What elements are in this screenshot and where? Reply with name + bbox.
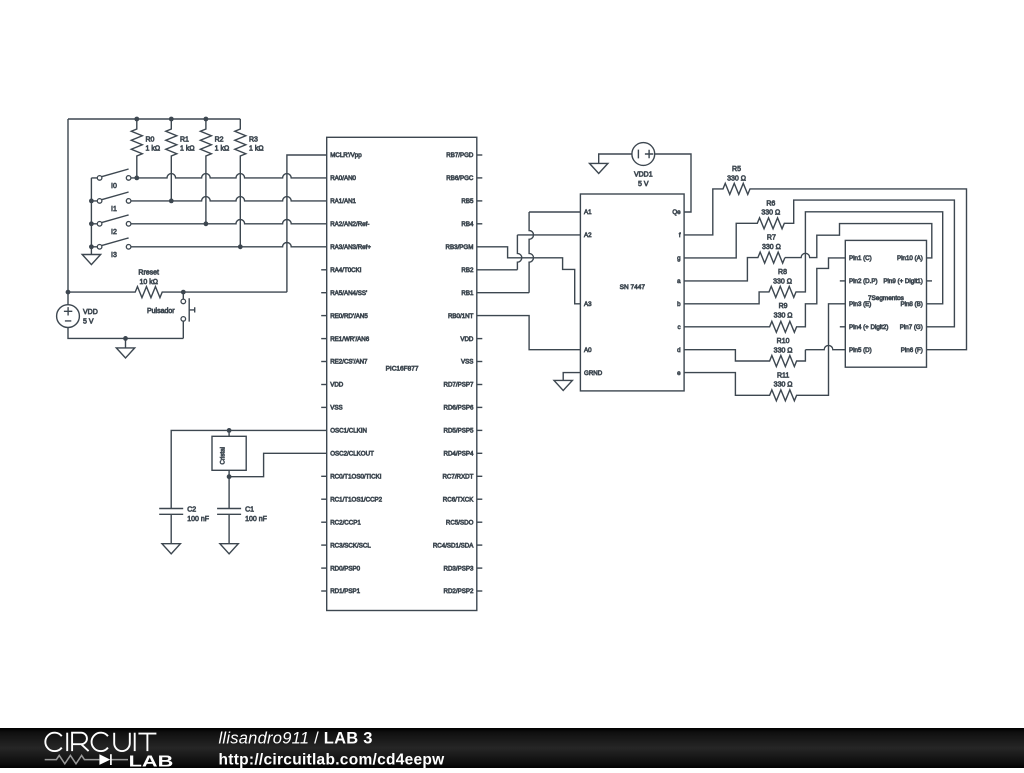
svg-text:RD6/PSP6: RD6/PSP6 xyxy=(443,405,473,412)
pin left RA4/T0CKI xyxy=(321,269,327,271)
svg-text:RC4/SD1/SDA: RC4/SD1/SDA xyxy=(433,542,474,549)
pin left RA5/AN4/SS' xyxy=(321,292,327,294)
resistor R11 xyxy=(684,304,845,401)
svg-text:RA4/T0CKI: RA4/T0CKI xyxy=(330,267,362,274)
capacitor C2 xyxy=(159,509,183,544)
pin right RD2/PSP2 xyxy=(477,590,483,592)
pin right RD4/PSP4 xyxy=(477,452,483,454)
svg-text:MCLR'/Vpp: MCLR'/Vpp xyxy=(330,152,362,159)
pin right RD3/PSP3 xyxy=(477,567,483,569)
pin right RD6/PSP6 xyxy=(477,406,483,408)
svg-text:I2: I2 xyxy=(111,229,117,236)
svg-text:R7: R7 xyxy=(767,235,776,242)
svg-text:RA3/AN3/Ref+: RA3/AN3/Ref+ xyxy=(330,244,371,251)
logo CIRCUIT xyxy=(45,733,156,751)
svg-text:RE2/CS'/AN7: RE2/CS'/AN7 xyxy=(330,359,368,366)
svg-text:Pin7 (G): Pin7 (G) xyxy=(900,324,923,331)
wire VDD bottom xyxy=(68,328,183,339)
svg-text:C2: C2 xyxy=(187,507,196,514)
pin left VSS xyxy=(321,406,327,408)
node Pulsador top xyxy=(181,290,186,295)
chip U2 SN7447 xyxy=(580,194,684,391)
wire GRND xyxy=(563,373,580,381)
svg-text:Pin10 (A): Pin10 (A) xyxy=(897,255,923,262)
resistor R0 xyxy=(131,119,142,178)
svg-text:RD5/PSP5: RD5/PSP5 xyxy=(443,428,473,435)
switch I0 xyxy=(91,169,128,178)
svg-text:R3: R3 xyxy=(249,136,258,143)
ground C2 xyxy=(162,544,180,554)
node crystal bottom xyxy=(227,474,232,479)
svg-text:RB2: RB2 xyxy=(461,267,474,274)
svg-text:RA1/AN1: RA1/AN1 xyxy=(330,198,356,205)
svg-text:R5: R5 xyxy=(732,166,741,173)
pin left RC0/T1OS0/TICKI xyxy=(321,475,327,477)
svg-text:330 Ω: 330 Ω xyxy=(774,313,793,320)
pin right VDD xyxy=(477,338,483,340)
svg-text:RA0/AN0: RA0/AN0 xyxy=(330,175,356,182)
wire RB2 to A2 xyxy=(477,269,518,271)
chip U1 PIC16F877 xyxy=(327,137,477,610)
wire OSC2 xyxy=(229,453,327,476)
svg-text:100 nF: 100 nF xyxy=(187,516,209,523)
svg-text:I0: I0 xyxy=(111,183,117,190)
svg-text:RB3/PGM: RB3/PGM xyxy=(446,244,474,251)
svg-text:R11: R11 xyxy=(777,372,789,379)
wire RB3/PGM to A3 xyxy=(477,247,581,304)
source VDD xyxy=(57,305,80,328)
svg-text:b: b xyxy=(677,301,681,308)
svg-text:RC1/T1OS1/CCP2: RC1/T1OS1/CCP2 xyxy=(330,496,382,503)
resistor R8 xyxy=(684,212,943,304)
svg-text:RB7/PGD: RB7/PGD xyxy=(446,152,474,159)
svg-text:330 Ω: 330 Ω xyxy=(761,210,780,217)
svg-text:Pulsador: Pulsador xyxy=(147,308,175,315)
svg-text:Rreset: Rreset xyxy=(138,269,159,276)
svg-text:RB6/PGC: RB6/PGC xyxy=(446,175,474,182)
pin stub Pin4 xyxy=(840,326,846,328)
wire RB0/1NT to A0 xyxy=(477,316,581,350)
svg-text:VDD: VDD xyxy=(83,309,98,316)
resistor R3 xyxy=(235,119,246,247)
source VDD1 xyxy=(632,143,655,166)
svg-text:d: d xyxy=(677,347,681,354)
svg-text:Pin2 (D.P): Pin2 (D.P) xyxy=(849,278,878,285)
svg-text:RB5: RB5 xyxy=(461,198,474,205)
svg-text:Pin1 (C): Pin1 (C) xyxy=(849,255,872,262)
svg-text:f: f xyxy=(679,232,681,239)
svg-text:Qe: Qe xyxy=(672,209,681,216)
wire row RA2 xyxy=(131,220,327,224)
svg-text:R0: R0 xyxy=(146,136,155,143)
capacitor C1 xyxy=(217,509,241,544)
svg-text:RE0/RD'/AN5: RE0/RD'/AN5 xyxy=(330,313,368,320)
pin left RE2/CS'/AN7 xyxy=(321,361,327,363)
svg-text:330 Ω: 330 Ω xyxy=(762,244,781,251)
svg-text:e: e xyxy=(677,370,681,377)
pin left VDD xyxy=(321,384,327,386)
svg-text:RB0/1NT: RB0/1NT xyxy=(448,313,474,320)
chip U3 7Segmentos display xyxy=(845,240,926,367)
node bus I3 xyxy=(89,244,94,249)
svg-text:c: c xyxy=(678,324,681,331)
wire row RA0 xyxy=(131,174,327,178)
pin left RC1/T1OS1/CCP2 xyxy=(321,498,327,500)
svg-text:VSS: VSS xyxy=(330,405,342,412)
svg-text:5 V: 5 V xyxy=(83,318,94,325)
svg-text:Pin8 (B): Pin8 (B) xyxy=(900,301,922,308)
svg-text:VSS: VSS xyxy=(461,359,473,366)
crystal Cristal xyxy=(228,430,230,508)
resistor R6 xyxy=(684,200,954,327)
switch I2 xyxy=(91,215,128,224)
pin right RB4 xyxy=(477,223,483,225)
pin left RD1/PSP1 xyxy=(321,590,327,592)
svg-text:100 nF: 100 nF xyxy=(245,516,267,523)
node Rreset left xyxy=(66,290,71,295)
resistor R2 xyxy=(200,119,211,224)
pin left RE1/WR'/AN6 xyxy=(321,338,327,340)
svg-text:R8: R8 xyxy=(778,269,787,276)
node top bus junction R0 xyxy=(134,117,139,122)
node RA0 junction xyxy=(134,176,139,181)
pin right RD7/PSP7 xyxy=(477,384,483,386)
wire row RA1 xyxy=(131,197,327,201)
svg-text:R10: R10 xyxy=(777,338,790,345)
svg-text:RD7/PSP7: RD7/PSP7 xyxy=(443,382,473,389)
pin stub Pin2 xyxy=(840,280,846,282)
ground 7447 xyxy=(554,380,572,390)
svg-text:7Segmentos: 7Segmentos xyxy=(868,295,904,302)
svg-text:http://circuitlab.com/cd4eepw: http://circuitlab.com/cd4eepw xyxy=(219,751,446,768)
svg-text:RD3/PSP3: RD3/PSP3 xyxy=(443,565,473,572)
switch Pulsador xyxy=(183,292,194,338)
wire VDD1 left xyxy=(599,154,632,163)
svg-text:Cristal: Cristal xyxy=(219,447,226,465)
svg-text:RB1: RB1 xyxy=(461,290,474,297)
svg-text:LAB: LAB xyxy=(129,753,174,768)
node RA2 junction xyxy=(204,221,209,226)
svg-text:SN 7447: SN 7447 xyxy=(620,284,646,291)
svg-text:A1: A1 xyxy=(584,209,592,216)
svg-text:a: a xyxy=(677,278,681,285)
pin right RB6/PGC xyxy=(477,177,483,179)
svg-text:R9: R9 xyxy=(779,303,788,310)
pin right RC6/TXCK xyxy=(477,498,483,500)
wire OSC1 xyxy=(171,430,327,508)
svg-text:330 Ω: 330 Ω xyxy=(727,175,746,182)
svg-text:R1: R1 xyxy=(180,136,189,143)
svg-text:I1: I1 xyxy=(111,206,117,213)
svg-text:RD1/PSP1: RD1/PSP1 xyxy=(330,588,360,595)
pin left RC3/SCK/SCL xyxy=(321,544,327,546)
pin right RC7/RXDT xyxy=(477,475,483,477)
wire top bus xyxy=(68,118,240,120)
svg-text:1 kΩ: 1 kΩ xyxy=(146,146,161,153)
svg-text:5 V: 5 V xyxy=(638,181,649,188)
pin right RB7/PGD xyxy=(477,154,483,156)
node bus I2 xyxy=(89,221,94,226)
svg-text:Pin9 (+ Digit1): Pin9 (+ Digit1) xyxy=(883,278,922,285)
pin left RE0/RD'/AN5 xyxy=(321,315,327,317)
svg-text:llisandro911 / LAB 3: llisandro911 / LAB 3 xyxy=(219,729,373,747)
pin left RD0/PSP0 xyxy=(321,567,327,569)
svg-text:R2: R2 xyxy=(215,136,224,143)
node RA1 junction xyxy=(169,199,174,204)
svg-text:Pin5 (D): Pin5 (D) xyxy=(849,347,872,354)
svg-text:RD2/PSP2: RD2/PSP2 xyxy=(443,588,473,595)
svg-text:g: g xyxy=(677,255,681,262)
resistor R9 xyxy=(684,258,845,332)
svg-text:RC7/RXDT: RC7/RXDT xyxy=(442,474,473,481)
svg-text:RC0/T1OS0/TICKI: RC0/T1OS0/TICKI xyxy=(330,474,382,481)
resistor R5 xyxy=(684,183,966,349)
svg-text:RE1/WR'/AN6: RE1/WR'/AN6 xyxy=(330,336,370,343)
svg-text:A0: A0 xyxy=(584,347,592,354)
wire MCLR xyxy=(287,155,327,292)
svg-text:Pin3 (E): Pin3 (E) xyxy=(849,301,871,308)
pin right VSS xyxy=(477,361,483,363)
node ground junction xyxy=(123,336,128,341)
svg-text:GRND: GRND xyxy=(584,370,603,377)
svg-text:1 kΩ: 1 kΩ xyxy=(180,146,195,153)
wire RB1 to A1 xyxy=(477,292,529,294)
svg-text:10 kΩ: 10 kΩ xyxy=(139,279,157,286)
svg-text:OSC2/CLKOUT: OSC2/CLKOUT xyxy=(330,451,374,458)
svg-text:C1: C1 xyxy=(245,507,254,514)
svg-text:1 kΩ: 1 kΩ xyxy=(215,146,230,153)
svg-text:I3: I3 xyxy=(111,252,117,259)
logo resistor zigzag xyxy=(45,755,128,763)
pin right RB5 xyxy=(477,200,483,202)
node top bus junction R2 xyxy=(204,117,209,122)
svg-text:RA2/AN2/Ref-: RA2/AN2/Ref- xyxy=(330,221,369,228)
svg-text:Pin4 (+ Digit2): Pin4 (+ Digit2) xyxy=(849,324,888,331)
svg-text:RA5/AN4/SS': RA5/AN4/SS' xyxy=(330,290,367,297)
node top bus junction R1 xyxy=(169,117,174,122)
svg-text:RD0/PSP0: RD0/PSP0 xyxy=(330,565,360,572)
wire VDD1 to Qe xyxy=(655,154,691,212)
svg-text:Pin6 (F): Pin6 (F) xyxy=(901,347,923,354)
wire switch bus xyxy=(90,178,92,255)
pin right RC5/SDO xyxy=(477,521,483,523)
svg-text:OSC1/CLKIN: OSC1/CLKIN xyxy=(330,428,367,435)
ground bottom xyxy=(125,338,127,348)
svg-text:RC3/SCK/SCL: RC3/SCK/SCL xyxy=(330,542,371,549)
pin left RC2/CCP1 xyxy=(321,521,327,523)
svg-text:330 Ω: 330 Ω xyxy=(774,382,793,389)
ground C1 xyxy=(220,544,238,554)
resistor Rreset xyxy=(68,287,287,298)
svg-text:VDD: VDD xyxy=(460,336,474,343)
logo diode xyxy=(99,754,110,765)
svg-text:1 kΩ: 1 kΩ xyxy=(249,146,264,153)
svg-text:A3: A3 xyxy=(584,301,592,308)
svg-text:RD4/PSP4: RD4/PSP4 xyxy=(443,451,473,458)
svg-text:RC5/SDO: RC5/SDO xyxy=(446,519,474,526)
ground VDD1 xyxy=(590,163,608,173)
svg-text:PIC16F877: PIC16F877 xyxy=(386,366,419,373)
ground switches xyxy=(82,255,100,265)
svg-text:RC6/TXCK: RC6/TXCK xyxy=(443,496,474,503)
wire row RA3 xyxy=(131,242,327,246)
node RA3 junction xyxy=(238,244,243,249)
node bus I1 xyxy=(89,199,94,204)
svg-text:RB4: RB4 xyxy=(461,221,474,228)
pin right RD5/PSP5 xyxy=(477,429,483,431)
resistor R1 xyxy=(166,119,177,201)
resistor R10 xyxy=(684,350,805,367)
resistor R7 xyxy=(684,252,785,281)
svg-text:A2: A2 xyxy=(584,232,592,239)
svg-text:330 Ω: 330 Ω xyxy=(774,347,793,354)
wire left vertical xyxy=(67,119,69,305)
svg-text:R6: R6 xyxy=(766,200,775,207)
pin right RC4/SD1/SDA xyxy=(477,544,483,546)
pin stub Pin9 xyxy=(927,280,933,282)
switch I3 xyxy=(91,238,128,247)
svg-text:330 Ω: 330 Ω xyxy=(773,278,792,285)
switch I1 xyxy=(91,192,128,201)
node crystal top xyxy=(227,428,232,433)
svg-text:RC2/CCP1: RC2/CCP1 xyxy=(330,519,361,526)
svg-text:VDD: VDD xyxy=(330,382,344,389)
svg-text:VDD1: VDD1 xyxy=(634,171,653,178)
